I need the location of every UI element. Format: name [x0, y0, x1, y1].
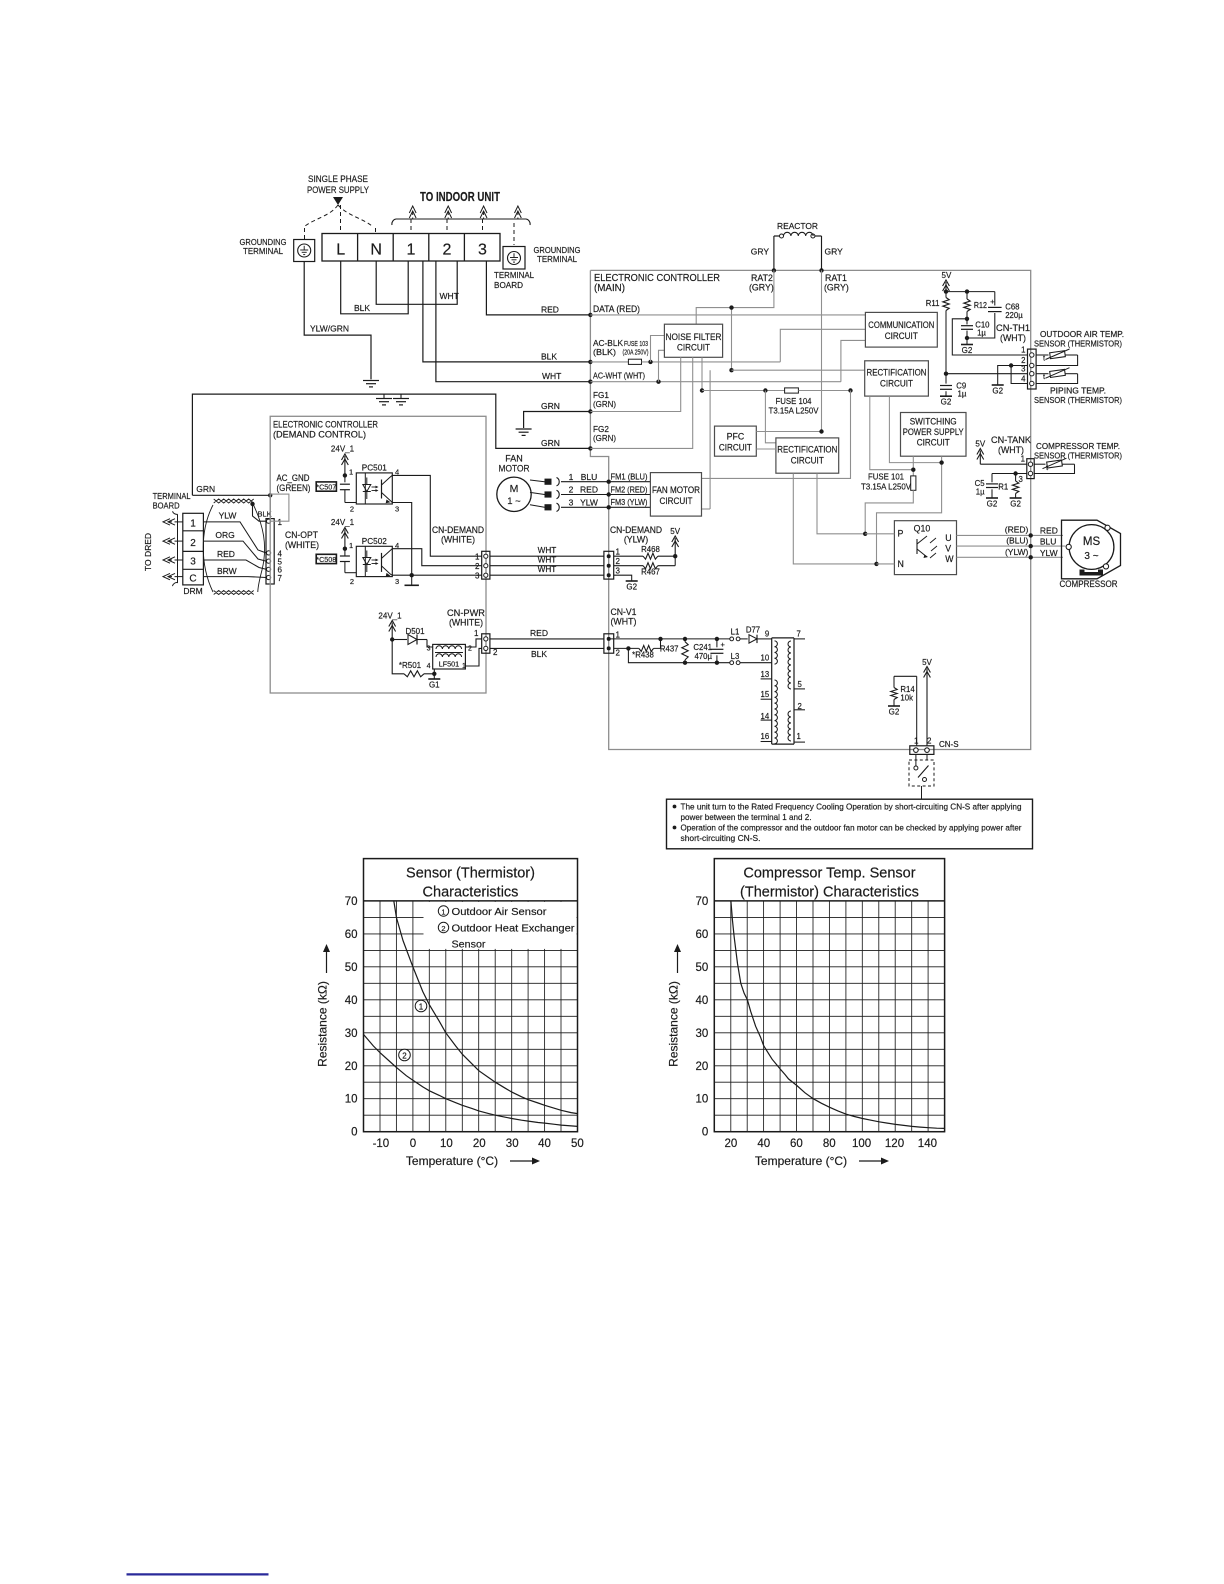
- svg-text:20: 20: [725, 1138, 738, 1150]
- rectification circuit box: [865, 361, 929, 396]
- compressor motor MS: [1062, 520, 1121, 579]
- svg-text:30: 30: [345, 1028, 358, 1040]
- svg-text:FAN MOTOR: FAN MOTOR: [652, 485, 700, 495]
- curve label 1: [415, 1000, 427, 1012]
- junction FG2: [588, 446, 592, 450]
- svg-text:*R501: *R501: [399, 661, 422, 670]
- svg-text:80: 80: [823, 1138, 836, 1150]
- wire LF501 pin2 to CN-PWR pin1: [465, 639, 481, 647]
- svg-text:GRN: GRN: [541, 401, 560, 411]
- svg-text:C241: C241: [693, 643, 712, 652]
- wire YLW/GRN from left grounding terminal: [304, 262, 371, 380]
- graph x axis arrow: [510, 1160, 534, 1162]
- wire terminal1 BLK to AC-BLK: [423, 261, 590, 362]
- svg-text:L1: L1: [731, 628, 740, 637]
- svg-text:R467: R467: [641, 568, 660, 577]
- connector CN-V1: [604, 634, 614, 653]
- connector CN-TH1: [1028, 349, 1037, 389]
- signal ground G2 demand: [626, 580, 638, 582]
- wire WHT 2: [490, 565, 604, 567]
- wire WHT 1: [490, 555, 604, 557]
- optocoupler PC502: [356, 546, 392, 576]
- graph x axis arrow: [859, 1160, 883, 1162]
- right grounding terminal: [503, 247, 525, 270]
- svg-text:13: 13: [761, 670, 770, 679]
- svg-text:(GRN): (GRN): [593, 434, 616, 443]
- svg-text:(DEMAND CONTROL): (DEMAND CONTROL): [273, 429, 366, 439]
- svg-text:30: 30: [506, 1138, 519, 1150]
- svg-text:G1: G1: [429, 681, 440, 690]
- signal ground G1: [433, 674, 435, 679]
- svg-text:(WHITE): (WHITE): [441, 535, 475, 545]
- wire WHT riser to communication: [841, 340, 866, 381]
- wire WHT 3: [490, 574, 604, 576]
- svg-text:16: 16: [761, 732, 770, 741]
- wire N to terminal2 jumper WHT: [376, 261, 457, 304]
- svg-text:(BLU): (BLU): [1006, 536, 1028, 546]
- supply arrow 24V_1 second: [344, 530, 346, 549]
- svg-text:2: 2: [475, 562, 480, 571]
- cable outline left arc: [203, 505, 213, 592]
- svg-text:5V: 5V: [942, 271, 952, 280]
- wire rect to N riser: [889, 396, 941, 463]
- junction RAT1 top: [819, 268, 823, 272]
- signal ground G2 C5: [986, 497, 998, 499]
- wire U: [957, 534, 1064, 536]
- svg-text:70: 70: [345, 896, 358, 908]
- svg-text:2: 2: [350, 505, 354, 514]
- svg-text:Operation of the compressor an: Operation of the compressor and the outd…: [681, 823, 1022, 833]
- svg-text:SENSOR (THERMISTOR): SENSOR (THERMISTOR): [1034, 395, 1122, 405]
- svg-text:2: 2: [616, 649, 621, 658]
- svg-text:40: 40: [696, 995, 709, 1007]
- junction AC-WHT: [588, 380, 592, 384]
- chassis ground hook 2: [400, 394, 402, 398]
- capacitor C68: [994, 292, 996, 306]
- electronic controller demand control box: [270, 416, 486, 693]
- thermistor compressor: [1034, 463, 1045, 465]
- junction shield BLK: [250, 502, 254, 506]
- wire fuse104 to rect2: [765, 391, 776, 443]
- inductor L3: [730, 661, 734, 665]
- svg-text:1: 1: [797, 732, 801, 741]
- pfc circuit box: [715, 426, 757, 456]
- svg-text:RECTIFICATION: RECTIFICATION: [867, 368, 927, 378]
- wire fuse104 run: [702, 390, 785, 392]
- wire PC502 pin3 to CN-DEMAND pin3: [392, 574, 481, 576]
- svg-text:G2: G2: [987, 500, 998, 509]
- wire switching to N: [877, 456, 942, 564]
- svg-text:1: 1: [1021, 455, 1025, 464]
- notes box: [667, 799, 1033, 849]
- wire LF501 pin4: [433, 669, 435, 674]
- svg-text:60: 60: [696, 929, 709, 941]
- svg-text:TERMINAL: TERMINAL: [153, 491, 191, 501]
- svg-text:CN-PWR: CN-PWR: [447, 608, 485, 618]
- dashed drop to terminal 1: [410, 219, 412, 232]
- svg-text:60: 60: [790, 1138, 803, 1150]
- svg-text:SENSOR (THERMISTOR): SENSOR (THERMISTOR): [1034, 451, 1122, 461]
- svg-text:*R438: *R438: [632, 651, 654, 660]
- svg-text:T3.15A L250V: T3.15A L250V: [861, 483, 912, 492]
- svg-text:(20A 250V): (20A 250V): [623, 348, 649, 357]
- svg-text:20: 20: [345, 1061, 358, 1073]
- svg-text:G2: G2: [941, 398, 952, 407]
- svg-text:3: 3: [616, 567, 621, 576]
- svg-text:L: L: [336, 242, 345, 259]
- svg-text:G2: G2: [626, 583, 637, 592]
- wire noise filter to fuse104: [701, 357, 703, 390]
- svg-text:YLW: YLW: [219, 511, 237, 521]
- inverter Q10 box: [894, 521, 956, 575]
- wire RAT2 gry: [773, 236, 775, 270]
- junction AC_GND: [268, 493, 272, 497]
- indoor unit arrow 2: [447, 212, 449, 219]
- wire pfc to rect2: [756, 448, 776, 450]
- wire FM3: [561, 506, 650, 508]
- svg-text:COMPRESSOR TEMP.: COMPRESSOR TEMP.: [1036, 441, 1120, 451]
- indoor unit brace: [392, 219, 530, 225]
- svg-text:3: 3: [1021, 365, 1025, 374]
- wire bottom rail: [628, 648, 685, 662]
- junction DATA: [588, 313, 592, 317]
- service switch dashed box: [909, 760, 934, 786]
- svg-text:TERMINAL: TERMINAL: [243, 246, 283, 256]
- wire shield BLK to CN-OPT pin1: [253, 504, 267, 521]
- svg-text:(GRY): (GRY): [824, 283, 849, 293]
- junction 24V: [390, 637, 394, 641]
- svg-text:BLU: BLU: [1040, 537, 1057, 547]
- signal ground opto: [411, 575, 413, 585]
- capacitor C508 cap: [344, 549, 346, 556]
- svg-text:RECTIFICATION: RECTIFICATION: [777, 445, 837, 455]
- dred arrow 3: [178, 559, 183, 561]
- igbt symbol: [916, 539, 918, 554]
- graph legend: [424, 902, 577, 949]
- signal ground G2 C10: [966, 338, 968, 345]
- svg-text:BLK: BLK: [531, 649, 547, 659]
- connector CN-OPT: [266, 519, 274, 584]
- svg-text:5V: 5V: [922, 658, 932, 667]
- svg-text:Sensor: Sensor: [452, 940, 487, 951]
- resistor R501: [392, 640, 404, 674]
- svg-text:9: 9: [765, 630, 769, 639]
- svg-text:G2: G2: [992, 387, 1003, 396]
- svg-text:50: 50: [571, 1138, 584, 1150]
- svg-text:1µ: 1µ: [977, 329, 986, 338]
- wire RED cnpwr: [490, 638, 604, 640]
- svg-text:0: 0: [702, 1127, 708, 1139]
- svg-text:LF501: LF501: [439, 660, 459, 669]
- connector CN-DEMAND WHITE: [482, 551, 490, 579]
- resistor R14: [894, 675, 917, 677]
- svg-text:BOARD: BOARD: [494, 280, 523, 290]
- svg-text:2: 2: [441, 924, 445, 933]
- wire pin4 to pin2: [1011, 366, 1027, 384]
- svg-text:WHT: WHT: [542, 371, 561, 381]
- svg-text:60: 60: [345, 929, 358, 941]
- svg-text:TERMINAL: TERMINAL: [494, 270, 534, 280]
- svg-text:N: N: [898, 559, 904, 569]
- capacitor C10: [966, 319, 968, 325]
- svg-text:3: 3: [427, 646, 431, 653]
- wire FM1: [561, 481, 650, 483]
- svg-text:SINGLE PHASE: SINGLE PHASE: [308, 174, 368, 185]
- wire GRN to shield: [192, 494, 270, 496]
- resistor R467: [614, 565, 643, 567]
- junction FG1: [588, 409, 592, 413]
- wire V: [957, 545, 1066, 547]
- svg-text:30: 30: [696, 1028, 709, 1040]
- graph grid: [364, 901, 578, 1132]
- svg-text:PC502: PC502: [362, 537, 387, 546]
- svg-text:FM3 (YLW): FM3 (YLW): [611, 498, 648, 507]
- svg-text:1: 1: [569, 472, 574, 482]
- svg-text:G2: G2: [962, 346, 973, 355]
- capacitor C5: [991, 474, 993, 483]
- svg-text:PIPING TEMP.: PIPING TEMP.: [1050, 386, 1106, 396]
- chassis ground hook 1: [383, 394, 385, 398]
- svg-text:G2: G2: [889, 708, 900, 717]
- chassis ground FG1: [516, 428, 532, 430]
- terminal board L N 1 2 3: [322, 234, 500, 262]
- wire PC502 pin4 to CN-DEMAND pin2: [392, 549, 481, 566]
- shield hatch top: [214, 499, 254, 503]
- graph curve 1: [394, 901, 578, 1114]
- curve label 2: [399, 1049, 411, 1061]
- svg-text:YLW/GRN: YLW/GRN: [310, 324, 349, 334]
- svg-text:1: 1: [419, 1003, 424, 1012]
- svg-text:RED: RED: [1040, 526, 1058, 536]
- svg-text:24V_1: 24V_1: [331, 518, 355, 527]
- diode D77: [749, 635, 757, 643]
- cable outline right arc: [254, 505, 265, 592]
- svg-text:1: 1: [278, 518, 283, 527]
- svg-text:20: 20: [473, 1138, 486, 1150]
- wire P entry: [865, 533, 894, 535]
- svg-text:GRN: GRN: [541, 438, 560, 448]
- svg-text:CN-S: CN-S: [939, 740, 959, 749]
- svg-text:1: 1: [616, 548, 621, 557]
- noise filter circuit box: [664, 324, 722, 357]
- svg-text:R11: R11: [926, 299, 940, 308]
- svg-text:WHT: WHT: [538, 556, 557, 565]
- wire RAT1 inner: [821, 270, 823, 431]
- wire RAT2 tap to rectifier: [731, 308, 733, 371]
- svg-text:L3: L3: [731, 652, 740, 661]
- junction RAT2 top: [772, 268, 776, 272]
- svg-text:RED: RED: [541, 305, 559, 315]
- svg-text:R437: R437: [660, 645, 679, 654]
- footer rule: [127, 1573, 269, 1575]
- wire LF501 pin1 to CN-PWR pin2: [465, 648, 481, 666]
- svg-text:CIRCUIT: CIRCUIT: [885, 331, 919, 341]
- dred arrow 2: [178, 540, 183, 542]
- wire pin2 tank: [992, 473, 1027, 475]
- svg-text:20: 20: [696, 1061, 709, 1073]
- svg-text:YLW: YLW: [580, 498, 598, 508]
- resistor R438: [614, 647, 639, 649]
- wire RAT1 gry: [821, 236, 823, 270]
- capacitor C241: [716, 639, 718, 647]
- wire pin2 to G2: [998, 366, 1028, 386]
- svg-text:G2: G2: [1010, 500, 1021, 509]
- wire switching to fuse101: [912, 456, 914, 476]
- signal ground G2 th: [992, 384, 1004, 386]
- svg-text:ELECTRONIC CONTROLLER: ELECTRONIC CONTROLLER: [273, 419, 378, 429]
- svg-text:D77: D77: [746, 626, 760, 635]
- svg-text:5: 5: [798, 680, 803, 689]
- svg-text:1µ: 1µ: [958, 390, 967, 399]
- svg-text:AC_GND: AC_GND: [277, 473, 310, 483]
- indoor unit arrow 4: [517, 212, 519, 219]
- svg-text:The unit turn to the Rated Fre: The unit turn to the Rated Frequency Coo…: [681, 802, 1022, 812]
- wire N entry: [877, 563, 895, 565]
- svg-text:1: 1: [407, 242, 416, 259]
- graph y axis arrow: [677, 950, 679, 973]
- svg-text:FUSE 101: FUSE 101: [868, 473, 904, 482]
- svg-text:2: 2: [190, 538, 196, 549]
- svg-text:7: 7: [797, 630, 801, 639]
- svg-text:POWER SUPPLY: POWER SUPPLY: [307, 185, 370, 196]
- wire BLK cnpwr: [490, 647, 604, 649]
- svg-text:470µ: 470µ: [694, 652, 712, 661]
- wire AC_GND into demand board: [269, 495, 271, 518]
- svg-text:TO INDOOR UNIT: TO INDOOR UNIT: [420, 190, 500, 204]
- inductor L1: [730, 637, 734, 641]
- svg-text:(YLW): (YLW): [1005, 547, 1029, 557]
- fuse FUSE101: [911, 476, 916, 490]
- wire FG1 to noise filter: [590, 357, 680, 411]
- svg-text:FM1 (BLU): FM1 (BLU): [611, 473, 648, 482]
- svg-text:24V_1: 24V_1: [331, 445, 355, 454]
- graph frame: [364, 859, 578, 1132]
- svg-text:BRW: BRW: [217, 566, 237, 576]
- wire fuse101 to P: [865, 490, 913, 534]
- svg-text:3 ~: 3 ~: [1084, 551, 1098, 562]
- wire AC-BLK run2: [642, 361, 781, 363]
- demand ground bus: [192, 394, 590, 495]
- dashed drop to right grounding terminal: [513, 223, 515, 245]
- svg-text:COMMUNICATION: COMMUNICATION: [868, 320, 934, 330]
- wire BRW terminalC to pin7: [203, 576, 266, 579]
- svg-text:(YLW): (YLW): [624, 535, 648, 545]
- svg-text:50: 50: [345, 962, 358, 974]
- svg-text:WHT: WHT: [538, 546, 557, 555]
- svg-text:2: 2: [616, 557, 621, 566]
- svg-text:15: 15: [761, 690, 770, 699]
- svg-text:R468: R468: [641, 545, 660, 554]
- wire pfc to RAT1: [756, 431, 821, 433]
- svg-text:Resistance (kΩ): Resistance (kΩ): [316, 981, 330, 1067]
- wire RED terminal3 to pin6: [203, 560, 266, 569]
- left grounding terminal: [294, 240, 315, 262]
- wire noise filter tap2: [659, 350, 665, 381]
- svg-text:CN-DEMAND: CN-DEMAND: [610, 525, 662, 535]
- optocoupler PC501: [356, 473, 392, 504]
- svg-text:CN-OPT: CN-OPT: [285, 530, 319, 540]
- electronic controller main box: [590, 270, 1030, 749]
- svg-text:Characteristics: Characteristics: [423, 885, 519, 901]
- dashed lead to grounding terminal: [305, 205, 338, 226]
- wire terminal2 WHT to AC-WHT: [436, 261, 590, 382]
- svg-text:3: 3: [478, 242, 487, 259]
- svg-text:Resistance (kΩ): Resistance (kΩ): [667, 981, 681, 1067]
- svg-text:AC-BLK: AC-BLK: [593, 339, 624, 348]
- junction AC-BLK: [588, 360, 592, 364]
- svg-text:40: 40: [538, 1138, 551, 1150]
- wire R12 node to pin1: [952, 319, 1027, 355]
- svg-text:4: 4: [1021, 375, 1026, 384]
- wire to notes box: [921, 786, 923, 799]
- supply arrow 5V R468: [674, 538, 676, 556]
- svg-text:PFC: PFC: [727, 432, 745, 442]
- svg-text:(GREEN): (GREEN): [277, 483, 311, 493]
- wire FG2 to noise filter: [590, 357, 692, 448]
- svg-text:FG1: FG1: [593, 391, 609, 400]
- svg-text:2: 2: [927, 737, 932, 746]
- svg-text:RED: RED: [530, 628, 548, 638]
- svg-text:OUTDOOR AIR TEMP.: OUTDOOR AIR TEMP.: [1040, 329, 1124, 339]
- svg-text:Temperature (°C): Temperature (°C): [755, 1154, 847, 1168]
- svg-text:BLK: BLK: [541, 352, 557, 362]
- svg-text:V: V: [945, 544, 951, 554]
- wire GRN to FG1: [524, 412, 590, 429]
- wire W: [957, 556, 1064, 558]
- svg-text:10: 10: [345, 1094, 358, 1106]
- graph curve 2: [364, 1034, 578, 1126]
- svg-text:AC-WHT (WHT): AC-WHT (WHT): [593, 372, 645, 381]
- svg-text:WHT: WHT: [538, 565, 557, 574]
- svg-text:1: 1: [475, 553, 480, 562]
- wire 5V to CN-TANK pin1: [980, 463, 1027, 465]
- wire PC501 pin4 to CN-DEMAND pin1: [392, 475, 481, 556]
- label box *C507: [316, 482, 336, 491]
- graph title separator: [364, 900, 578, 902]
- svg-text:NOISE FILTER: NOISE FILTER: [666, 332, 722, 342]
- wire PC501 pin3 down: [392, 503, 411, 576]
- svg-text:GRY: GRY: [751, 247, 770, 257]
- connector CN-S: [910, 746, 934, 755]
- notes bullet 2: [673, 826, 677, 830]
- wire ORG terminal2 to pin5: [203, 541, 266, 561]
- svg-text:CIRCUIT: CIRCUIT: [791, 456, 825, 466]
- svg-text:FM2 (RED): FM2 (RED): [611, 485, 648, 494]
- svg-text:10: 10: [696, 1094, 709, 1106]
- indoor unit arrow 3: [483, 212, 485, 219]
- wire R11 node to pin3: [946, 373, 1028, 375]
- svg-text:120: 120: [885, 1138, 904, 1150]
- svg-text:Compressor Temp. Sensor: Compressor Temp. Sensor: [743, 866, 915, 882]
- svg-text:(Thermistor) Characteristics: (Thermistor) Characteristics: [740, 885, 919, 901]
- communication circuit box: [865, 312, 937, 347]
- svg-text:SWITCHING: SWITCHING: [910, 417, 957, 427]
- svg-text:GRN: GRN: [196, 484, 215, 494]
- svg-text:W: W: [945, 554, 954, 564]
- svg-text:(MAIN): (MAIN): [594, 283, 625, 294]
- svg-text:GRY: GRY: [825, 247, 844, 257]
- svg-text:SENSOR (THERMISTOR): SENSOR (THERMISTOR): [1034, 339, 1122, 349]
- wire L to terminal1 jumper BLK: [341, 261, 409, 314]
- transformer T main: [771, 638, 773, 744]
- svg-text:1: 1: [1021, 346, 1025, 355]
- svg-text:1: 1: [914, 737, 919, 746]
- svg-text:(GRY): (GRY): [749, 283, 774, 293]
- rectification circuit 2 box: [776, 438, 839, 473]
- svg-text:CN-TANK: CN-TANK: [991, 435, 1031, 445]
- svg-text:POWER SUPPLY: POWER SUPPLY: [903, 427, 964, 437]
- svg-text:3: 3: [395, 577, 399, 586]
